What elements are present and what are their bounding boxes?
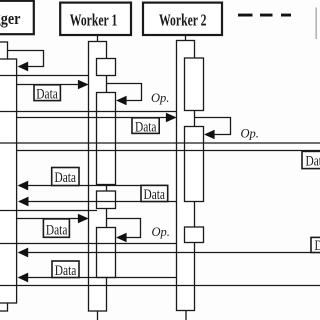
label box Data 3: [52, 168, 79, 186]
svg-text:Data: Data: [46, 222, 68, 238]
svg-text:Worker 2: Worker 2: [159, 11, 207, 30]
lifeline Trigger activation nested: [0, 59, 17, 303]
self-message loop 1 on Worker1: [107, 84, 142, 101]
svg-text:Data: Data: [36, 87, 58, 103]
message line y285 full width: [0, 285, 320, 287]
legend dashed line: [238, 14, 253, 17]
lifeline Worker1 nested box E: [97, 228, 116, 278]
lifeline Trigger activation outer: [0, 42, 8, 311]
svg-text:Op.: Op.: [151, 91, 169, 105]
label box Data 2: [132, 118, 159, 134]
self-message loop 2 on Worker1: [107, 219, 141, 238]
svg-text:Op.: Op.: [241, 127, 259, 141]
message Data return arrow Worker2 to Trigger y277: [19, 277, 177, 279]
legend box edge (cropped, faint): [315, 8, 317, 40]
participant box Worker 2: [143, 3, 222, 35]
message Data return arrow to Trigger y185: [19, 185, 168, 187]
message Data arrow Trigger to Worker1: [17, 84, 87, 86]
svg-text:Data: Data: [306, 154, 320, 170]
arrowhead left into Worker1 bar C y100: [116, 96, 127, 106]
lifeline Worker2 tail: [185, 311, 187, 320]
label box Data 5: [43, 219, 69, 237]
arrowhead left into Worker2 bar2 y134: [204, 130, 215, 140]
svg-text:Data: Data: [315, 238, 320, 254]
message line y243 to Worker2: [0, 243, 177, 245]
lifeline Worker1 activation outer: [89, 42, 107, 312]
svg-text:Data: Data: [55, 170, 77, 186]
message Data return arrow to Trigger y201: [19, 201, 177, 203]
message line y111 to Worker2: [0, 111, 177, 113]
arrowhead left into Trigger y252: [18, 248, 29, 258]
message line y75 to Worker1: [0, 75, 89, 77]
message Data arrow Trigger to Worker2: [17, 117, 175, 119]
lifeline Worker1 tail: [97, 311, 99, 320]
label box Data right cropped 2: [311, 237, 320, 252]
arrowhead left into Worker1 box E y237: [116, 233, 127, 243]
arrowhead left into Trigger y201: [18, 197, 29, 207]
message line y143 full width: [0, 142, 320, 144]
message Data arrow Trigger to Worker1 y218: [17, 218, 87, 220]
lifeline Worker2 stem: [185, 35, 187, 41]
lifeline Worker2 nested box 5: [185, 227, 204, 243]
label box Data 6: [52, 261, 79, 278]
message Data return arrow full width y252: [19, 252, 320, 254]
svg-text:Data: Data: [144, 187, 166, 203]
lifeline Worker1 nested box D: [97, 191, 116, 209]
label box Data 1: [34, 85, 60, 101]
svg-text:Trigger: Trigger: [0, 9, 21, 28]
svg-text:Data: Data: [135, 120, 157, 136]
participant box Worker 1: [60, 3, 131, 35]
self-message loop on Worker2: [195, 118, 231, 135]
lifeline Worker1 nested box A: [97, 59, 116, 76]
self-message loop on Trigger: [8, 51, 44, 67]
arrowhead right into Worker1 y218: [78, 214, 89, 224]
label box Data 4: [141, 185, 168, 201]
participant box Trigger (cropped): [0, 1, 34, 34]
arrowhead left on Trigger loop: [18, 62, 29, 72]
svg-text:Worker 1: Worker 1: [70, 11, 118, 30]
arrowhead right into Worker1 y84: [78, 80, 89, 90]
svg-text:Data: Data: [55, 263, 77, 279]
lifeline Worker1 stem: [97, 35, 99, 42]
lifeline Worker2 nested bar 2: [185, 127, 204, 202]
label box Data right cropped 1: [302, 151, 320, 168]
arrowhead left into Trigger y185: [18, 181, 29, 191]
lifeline Worker2 nested bar 1: [185, 58, 204, 111]
svg-text:Op.: Op.: [152, 225, 170, 239]
arrowhead left into Trigger y277: [18, 273, 29, 283]
lifeline Worker2 activation outer: [177, 41, 195, 311]
message line y150 to right edge: [17, 150, 320, 152]
arrowhead right into Worker2 y117: [166, 113, 177, 123]
message line y210: [0, 210, 97, 212]
lifeline Worker1 nested bar C: [97, 93, 116, 185]
